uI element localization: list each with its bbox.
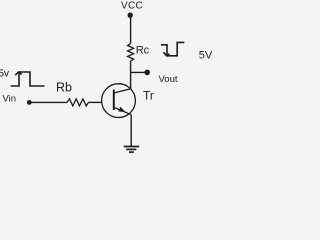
transistor Tr base bar xyxy=(113,90,115,111)
wire Rb to transistor base xyxy=(89,101,102,103)
wire VCC to Rc xyxy=(130,15,132,43)
output pulse waveform xyxy=(161,42,184,56)
svg-text:VCC: VCC xyxy=(121,0,143,11)
input pulse waveform xyxy=(11,72,45,86)
svg-text:5v: 5v xyxy=(0,69,9,80)
node Vin junction dot xyxy=(27,100,32,105)
wire Rc to collector xyxy=(130,61,132,89)
ground xyxy=(124,147,140,153)
svg-text:Tr: Tr xyxy=(143,89,154,103)
svg-text:Vin: Vin xyxy=(3,94,17,105)
resistor Rb xyxy=(67,99,89,106)
node VCC junction dot xyxy=(128,13,133,18)
resistor Rc xyxy=(128,44,134,62)
node Vout junction dot xyxy=(144,70,150,76)
transistor Tr emitter arrowhead xyxy=(118,107,125,112)
transistor Tr body circle xyxy=(102,84,136,118)
svg-text:Vout: Vout xyxy=(159,74,178,85)
wire emitter to ground xyxy=(130,115,132,147)
transistor Tr emitter stroke xyxy=(114,107,131,114)
svg-text:Rb: Rb xyxy=(56,80,72,94)
transistor Tr collector stroke xyxy=(114,89,131,93)
svg-text:5V: 5V xyxy=(199,49,213,61)
svg-text:Rc: Rc xyxy=(136,45,150,57)
wire Vin node to Rb xyxy=(29,101,67,103)
wire collector to Vout node xyxy=(131,71,147,73)
